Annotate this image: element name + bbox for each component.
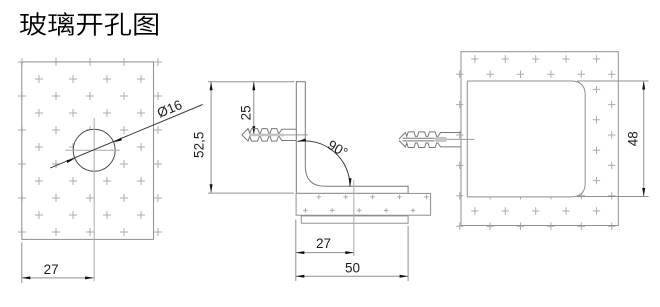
glass panel (right view) + pattern grid	[456, 55, 615, 230]
dimension 48 line with arrows	[642, 81, 645, 197]
middle dimension 27 line with arrows	[296, 251, 354, 254]
middle dimension text 27	[316, 236, 331, 251]
top extension line of bracket	[208, 81, 294, 83]
lower clamp plate	[301, 216, 408, 223]
svg-text:27: 27	[316, 236, 331, 251]
Ø16 leader line	[50, 105, 202, 168]
svg-text:48: 48	[625, 131, 640, 146]
label Ø16	[155, 97, 184, 121]
hole center extension line (side view)	[353, 180, 355, 256]
glass panel front view rectangle	[22, 62, 154, 240]
dimension text 25	[239, 105, 254, 120]
glass panel edge view with + pattern	[296, 193, 431, 215]
hole centerline vertical / extension to 27 dim	[93, 118, 95, 281]
svg-text:52,5: 52,5	[191, 132, 206, 158]
dimension text 52,5	[191, 132, 206, 158]
svg-text:25: 25	[239, 105, 254, 120]
90 degree angle arc	[297, 139, 351, 187]
bracket plate (front view, rounded right corners)	[467, 81, 585, 197]
drilled hole Ø16 circle	[73, 129, 115, 171]
dimension 52,5 line with arrows	[210, 82, 213, 193]
svg-text:27: 27	[44, 262, 59, 277]
right extension line for 50 dim	[407, 226, 409, 281]
hole centerline horizontal	[65, 149, 120, 151]
dimension 25 line with arrows	[252, 82, 255, 135]
left extension line for 27/50 dims	[295, 220, 297, 282]
dimension text 48	[625, 131, 640, 146]
left view dimension 27 line with arrows	[22, 276, 94, 279]
svg-text:90°: 90°	[325, 137, 350, 160]
L-shaped bracket (side view)	[296, 82, 408, 194]
wall anchor / expansion plug (side view)	[242, 129, 308, 142]
glass panel front view: + pattern grid	[18, 58, 162, 236]
svg-text:50: 50	[345, 261, 360, 276]
wall anchor / expansion plug (right view)	[399, 132, 475, 148]
left view dimension text 27	[44, 262, 59, 277]
dimension 50 line with arrows	[296, 275, 408, 278]
angle text 90°	[325, 137, 350, 160]
dimension text 50	[345, 261, 360, 276]
glass panel (right view) rectangle	[461, 52, 618, 226]
svg-text:Ø16: Ø16	[155, 97, 184, 121]
dimension 48 extension lines	[577, 81, 649, 197]
left view dimension 27 extension lines	[21, 242, 23, 283]
title 玻璃开孔图 (glass drilling drawing)	[20, 12, 158, 36]
bottom extension line (glass top)	[208, 192, 294, 194]
